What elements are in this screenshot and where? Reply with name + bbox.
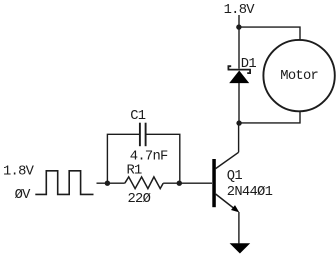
svg-text:2N44Ø1: 2N44Ø1 — [227, 184, 273, 200]
diode D1 (Schottky flyback) — [228, 66, 251, 83]
wire cap branch left — [107, 134, 139, 183]
svg-text:C1: C1 — [130, 109, 146, 124]
svg-text:1.8V: 1.8V — [3, 165, 35, 180]
wire cap branch right — [147, 134, 180, 183]
wire supply vertical — [238, 15, 240, 69]
wire resistor to base — [163, 182, 212, 184]
wire motor bottom — [239, 111, 300, 123]
resistor R1 — [125, 177, 163, 189]
ground — [230, 243, 251, 253]
junction dot supply node — [236, 24, 241, 29]
input waveform annotation — [35, 171, 93, 195]
wire emitter to ground — [238, 212, 240, 243]
motor M1 body — [263, 40, 334, 111]
capacitor C1 — [140, 123, 146, 147]
junction dot collector node — [236, 120, 241, 125]
svg-text:R1: R1 — [127, 164, 143, 179]
wire diode anode to collector node — [238, 83, 240, 123]
wire collector vertical — [238, 123, 240, 152]
junction dot base-right node — [177, 181, 182, 186]
svg-text:22Ø: 22Ø — [128, 191, 151, 207]
svg-text:Motor: Motor — [280, 69, 318, 84]
wire supply to motor top — [239, 27, 300, 40]
svg-text:4.7nF: 4.7nF — [130, 150, 168, 165]
wire input to resistor — [97, 182, 125, 184]
svg-text:ØV: ØV — [15, 187, 32, 203]
svg-text:Q1: Q1 — [227, 169, 243, 184]
svg-text:D1: D1 — [241, 57, 257, 72]
junction dot base-left node — [105, 181, 110, 186]
transistor Q1 (NPN 2N4401) — [212, 152, 239, 212]
